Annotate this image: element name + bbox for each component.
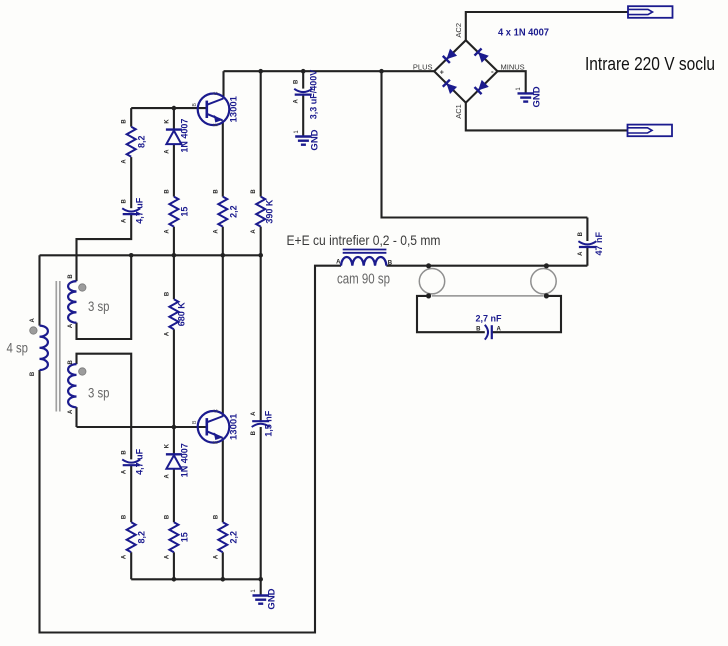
svg-text:A: A	[164, 149, 170, 154]
svg-text:AC1: AC1	[454, 104, 463, 119]
phase dot 3 sp bottom	[79, 368, 86, 375]
wire lamp top rail	[386, 265, 587, 267]
wire bottom bus	[131, 578, 261, 580]
svg-text:B: B	[388, 260, 393, 266]
transformer core	[56, 281, 60, 412]
inductor 4 sp winding	[40, 326, 48, 370]
svg-text:2,2: 2,2	[228, 205, 238, 218]
svg-text:4,7 uF: 4,7 uF	[135, 448, 145, 475]
junction bottom bus / R15	[172, 577, 177, 582]
wire R 8,2 top stub (top cell)	[130, 108, 132, 127]
svg-text:A: A	[164, 229, 170, 234]
junction V+ / 3,3 uF	[301, 69, 306, 74]
lamp pin dot top-right	[544, 263, 549, 268]
resistor 680 K	[164, 291, 186, 336]
capacitor 4,7 uF (bottom cell)	[122, 448, 145, 475]
resistor 2,2 (top)	[213, 189, 238, 234]
wire R 15 to mid bus	[173, 227, 175, 256]
wire bottom R 8,2 to bottom bus	[130, 552, 132, 579]
wire bottom GND stub	[260, 579, 262, 595]
wire 680 K column top	[173, 255, 175, 299]
svg-text:47 nF: 47 nF	[594, 231, 604, 255]
svg-text:4 x 1N 4007: 4 x 1N 4007	[498, 27, 549, 39]
svg-text:4 sp: 4 sp	[7, 340, 29, 356]
svg-text:A: A	[164, 473, 170, 478]
capacitor 47 nF	[578, 231, 604, 256]
wire lamp bottom loop right	[492, 296, 561, 332]
junction mid bus / 1,5 nF	[258, 253, 263, 258]
svg-text:3,3 uF/400V: 3,3 uF/400V	[309, 70, 319, 120]
junction bottom bus / GND	[258, 577, 263, 582]
svg-text:B: B	[294, 79, 300, 84]
connector J2 (mains bottom)	[628, 125, 673, 137]
svg-text:B: B	[213, 189, 219, 194]
wire top V+ rail	[224, 70, 435, 72]
capacitor 2,7 nF	[475, 314, 502, 340]
transistor Q1 13001 (top)	[192, 91, 240, 126]
resistor 2,2 (bottom)	[213, 514, 238, 559]
svg-text:A: A	[68, 409, 74, 414]
svg-text:Intrare 220 V soclu: Intrare 220 V soclu	[585, 54, 715, 74]
wire upper 3 sp loop	[77, 255, 132, 339]
svg-text:B: B	[122, 119, 128, 124]
svg-text:A: A	[164, 554, 170, 559]
svg-text:13001: 13001	[229, 413, 240, 440]
svg-text:-: -	[491, 67, 494, 76]
svg-text:B: B	[251, 430, 257, 435]
wire lamp bottom loop left	[417, 296, 485, 332]
resistor 8,2 (top cell)	[122, 119, 147, 164]
wire 390 K bottom to mid bus	[260, 227, 262, 256]
inductor 3 sp winding (top)	[68, 281, 76, 323]
svg-text:B: B	[122, 514, 128, 519]
svg-text:B: B	[164, 514, 170, 519]
svg-text:B: B	[251, 189, 257, 194]
junction V+ / 390K	[258, 69, 263, 74]
svg-text:B: B	[68, 274, 74, 279]
junction bottom bus / R2,2	[221, 577, 226, 582]
wire lower 3 sp winding to base	[75, 407, 77, 427]
svg-text:cam 90 sp: cam 90 sp	[337, 272, 390, 288]
inductor cam 90 sp	[336, 250, 393, 267]
svg-text:B: B	[213, 514, 219, 519]
diode 1N 4007 (bottom)	[164, 443, 189, 478]
svg-text:4,7 uF: 4,7 uF	[135, 197, 145, 224]
svg-text:3 sp: 3 sp	[88, 385, 110, 401]
wire top diode to R 15	[173, 145, 175, 197]
svg-text:B: B	[578, 231, 584, 236]
svg-text:C: C	[214, 409, 220, 413]
wire 390 K column top	[260, 71, 262, 196]
svg-text:A: A	[68, 323, 74, 328]
wire top transistor base	[131, 107, 207, 109]
wire mid bus to bottom collector	[222, 255, 224, 416]
svg-text:A: A	[122, 218, 128, 223]
bridge diode D2 (MINUS-AC2)	[474, 48, 488, 62]
junction mid bus / R15-680K	[172, 253, 177, 258]
inductor 3 sp winding (bottom)	[68, 364, 76, 407]
svg-text:A: A	[497, 327, 502, 333]
junction bottom base / diode	[172, 425, 177, 430]
wire 47 nF column	[586, 218, 588, 266]
svg-text:390 K: 390 K	[265, 199, 275, 224]
wire bottom transistor base	[77, 426, 207, 428]
ground (bridge minus)	[516, 86, 543, 107]
wire mid bus	[40, 254, 261, 256]
svg-text:B: B	[164, 189, 170, 194]
wire top transistor collector	[222, 71, 224, 98]
connector J1 (mains top)	[628, 6, 673, 18]
resistor 15 (bottom)	[164, 514, 189, 559]
svg-text:A: A	[122, 554, 128, 559]
lamp tube end right	[531, 269, 556, 294]
svg-text:8,2: 8,2	[137, 135, 147, 148]
bridge rectifier diamond	[434, 40, 497, 102]
wire left border loop	[40, 255, 342, 632]
svg-text:GND: GND	[309, 129, 320, 150]
svg-text:A: A	[294, 98, 300, 103]
svg-text:8,2: 8,2	[137, 531, 147, 544]
svg-text:15: 15	[179, 207, 189, 217]
svg-text:E+E cu intrefier 0,2 - 0,5 mm: E+E cu intrefier 0,2 - 0,5 mm	[287, 232, 441, 248]
wire bottom emitter column	[222, 438, 224, 580]
resistor 15 (top)	[164, 189, 189, 234]
wire AC2 to top connector	[466, 12, 628, 40]
svg-text:A: A	[30, 317, 36, 322]
svg-text:13001: 13001	[229, 95, 240, 122]
svg-text:B: B	[122, 198, 128, 203]
wire 3,3 uF to GND stub	[302, 95, 304, 136]
svg-text:A: A	[251, 411, 257, 416]
wire top R 2,2 to mid bus	[222, 227, 224, 256]
svg-text:B: B	[122, 450, 128, 455]
svg-text:K: K	[164, 119, 170, 124]
ground (bottom bus)	[251, 588, 278, 609]
wire mid bus to 1,5 nF	[260, 255, 262, 421]
svg-text:1N 4007: 1N 4007	[179, 119, 189, 153]
svg-text:A: A	[251, 229, 257, 234]
capacitor 1,5 nF	[251, 410, 273, 437]
junction mid bus / collector	[221, 253, 226, 258]
lamp pin dot bottom-left	[426, 293, 431, 298]
bridge diode D3 (AC1-PLUS)	[443, 80, 457, 94]
svg-text:GND: GND	[532, 86, 543, 107]
junction top base / diode	[172, 106, 177, 111]
svg-text:3 sp: 3 sp	[88, 298, 110, 314]
lamp tube end left	[419, 269, 444, 294]
wire top cell jog to 3 sp winding	[77, 214, 132, 281]
svg-text:B: B	[68, 359, 74, 364]
wire top emitter to R 2,2	[222, 120, 224, 196]
svg-text:B: B	[476, 327, 481, 333]
svg-text:A: A	[213, 554, 219, 559]
wire bottom C 4,7 uF to R 8,2	[130, 465, 132, 522]
capacitor 4,7 uF (top cell)	[122, 197, 145, 224]
transistor Q2 13001 (bottom)	[192, 409, 240, 444]
diode 1N 4007 (top)	[164, 119, 189, 154]
svg-text:2,2: 2,2	[228, 531, 238, 544]
wire lower 3 sp loop	[77, 354, 132, 460]
junction mid bus / 3 sp loop	[129, 253, 134, 258]
wire R 8,2 to C 4,7 uF link (top cell)	[130, 157, 132, 208]
svg-text:A: A	[213, 229, 219, 234]
ground (3,3 uF)	[294, 129, 321, 150]
phase dot 3 sp top	[79, 284, 86, 291]
svg-text:A: A	[164, 331, 170, 336]
svg-text:A: A	[336, 259, 341, 265]
phase dot 4 sp	[30, 327, 37, 334]
svg-text:2,7 nF: 2,7 nF	[475, 314, 502, 324]
svg-text:A: A	[122, 159, 128, 164]
wire 3,3 uF column top	[302, 71, 304, 88]
lamp pin dot top-left	[426, 263, 431, 268]
resistor 8,2 (bottom cell)	[122, 514, 147, 559]
wire 680 K to bottom base	[173, 329, 175, 427]
wire AC1 to bottom connector	[466, 103, 628, 131]
svg-text:1,5 nF: 1,5 nF	[264, 410, 274, 437]
wire MINUS to GND	[498, 71, 526, 92]
svg-text:AC2: AC2	[454, 23, 463, 38]
junction V+ / riser	[379, 69, 384, 74]
svg-text:+: +	[440, 70, 444, 77]
capacitor 3,3 uF/400V	[294, 70, 319, 120]
wire diode column top	[173, 108, 175, 130]
svg-text:GND: GND	[267, 588, 278, 609]
svg-text:C: C	[214, 91, 220, 95]
svg-text:K: K	[164, 443, 170, 448]
svg-text:1N 4007: 1N 4007	[179, 443, 189, 477]
bridge diode D1 (AC2-PLUS)	[443, 49, 457, 63]
svg-text:B: B	[164, 291, 170, 296]
svg-text:MINUS: MINUS	[501, 63, 525, 72]
wire bottom diode column	[173, 427, 175, 579]
resistor 390 K	[251, 189, 274, 234]
lamp pin dot bottom-right	[544, 293, 549, 298]
svg-text:A: A	[578, 251, 584, 256]
svg-text:680 K: 680 K	[177, 302, 187, 327]
wire riser from V+ rail to 47 nF	[382, 71, 588, 217]
svg-text:PLUS: PLUS	[413, 63, 433, 72]
bridge diode D4 (MINUS-AC1)	[474, 80, 488, 94]
svg-text:B: B	[30, 371, 36, 376]
svg-text:15: 15	[179, 532, 189, 542]
lamp tube bottom line	[432, 295, 544, 297]
wire 1,5 nF to bottom bus	[260, 427, 262, 579]
svg-text:A: A	[122, 469, 128, 474]
